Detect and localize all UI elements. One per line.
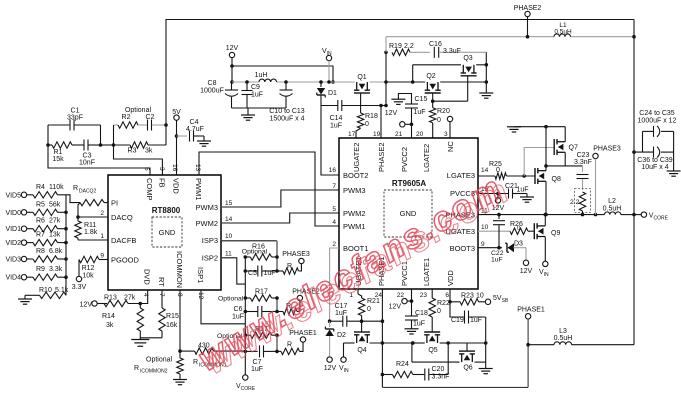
svg-text:1uF: 1uF xyxy=(335,310,347,317)
terminal VIN top xyxy=(322,48,332,84)
svg-text:R14: R14 xyxy=(102,313,115,320)
svg-text:C24 to C35: C24 to C35 xyxy=(639,110,675,117)
svg-text:PHASE2: PHASE2 xyxy=(377,142,386,172)
label Optional R2C2 xyxy=(125,107,152,114)
wire PHASE3 row xyxy=(478,213,636,217)
svg-text:R9: R9 xyxy=(36,266,45,273)
resistor R23 xyxy=(448,289,485,305)
svg-text:NC: NC xyxy=(446,141,455,152)
resistor RICOMMON1 430 xyxy=(180,343,245,369)
svg-text:Q3: Q3 xyxy=(463,55,472,62)
svg-text:VID3: VID3 xyxy=(5,257,21,264)
wire BOOT2 net xyxy=(321,106,339,176)
resistor R3 xyxy=(114,142,167,155)
wire PWM2 route xyxy=(222,213,339,223)
svg-text:VDD: VDD xyxy=(172,178,181,194)
svg-text:1uF: 1uF xyxy=(251,366,263,373)
svg-text:Q8: Q8 xyxy=(552,176,561,183)
svg-text:R13: R13 xyxy=(104,295,117,302)
svg-text:C3: C3 xyxy=(83,153,92,160)
capacitor C14 xyxy=(321,100,386,130)
svg-text:VID4: VID4 xyxy=(5,275,21,282)
resistor R11 xyxy=(75,203,98,240)
wire ISP2 node vertical xyxy=(275,296,279,313)
svg-text:5: 5 xyxy=(143,167,150,171)
terminal 5VSB xyxy=(485,295,509,304)
terminal VIN Q9 xyxy=(539,261,549,278)
capacitor C3 xyxy=(72,140,101,167)
wire PHASE2 pin stub xyxy=(379,104,383,138)
resistor R13 xyxy=(104,290,148,307)
svg-text:16: 16 xyxy=(171,164,178,172)
svg-text:3: 3 xyxy=(444,131,448,138)
svg-text:Optional: Optional xyxy=(218,296,244,303)
diode D3 xyxy=(505,241,526,253)
svg-text:R1: R1 xyxy=(54,149,63,156)
svg-text:3.3nF: 3.3nF xyxy=(574,159,592,166)
svg-text:2: 2 xyxy=(332,241,336,248)
svg-text:VID5: VID5 xyxy=(5,192,21,199)
terminal 12V BOOT3 xyxy=(520,248,533,275)
capacitor C17 xyxy=(330,303,385,327)
svg-text:VID2: VID2 xyxy=(5,240,21,247)
svg-text:0.5uH: 0.5uH xyxy=(554,29,572,36)
svg-text:5.1k: 5.1k xyxy=(55,287,69,294)
svg-text:LGATE3: LGATE3 xyxy=(447,171,475,180)
svg-text:0.5uH: 0.5uH xyxy=(554,335,573,342)
wire C1 block frame xyxy=(46,125,113,147)
svg-text:R: R xyxy=(287,263,292,270)
svg-text:VDD: VDD xyxy=(446,270,455,286)
svg-text:3.3nF: 3.3nF xyxy=(432,374,450,381)
svg-text:22: 22 xyxy=(397,292,405,299)
wire Q3 ground vertical xyxy=(485,52,489,93)
ground C4 xyxy=(197,136,211,146)
svg-text:1uF: 1uF xyxy=(517,187,529,194)
wire BOOT3 row xyxy=(478,246,502,250)
svg-text:UGATE2: UGATE2 xyxy=(352,143,361,172)
svg-text:VID1: VID1 xyxy=(5,226,21,233)
svg-text:16: 16 xyxy=(329,167,337,174)
capacitor C2 xyxy=(138,114,166,131)
svg-text:LGATE1: LGATE1 xyxy=(422,258,431,286)
ground C18 xyxy=(405,329,419,345)
svg-text:Q1: Q1 xyxy=(357,74,366,81)
wire Q7 Q8 gate tie xyxy=(524,148,554,177)
resistor R8 VID3 input xyxy=(5,248,67,264)
svg-text:33pF: 33pF xyxy=(67,115,83,122)
svg-text:0: 0 xyxy=(437,308,441,315)
resistor R15 xyxy=(140,290,179,338)
wire DACQ row xyxy=(78,216,108,218)
resistor R19 xyxy=(389,43,430,56)
transistor Q1 xyxy=(354,74,370,93)
svg-text:3.3V: 3.3V xyxy=(72,284,87,291)
svg-text:C16: C16 xyxy=(429,41,442,48)
svg-text:C23: C23 xyxy=(577,152,590,159)
svg-text:R17: R17 xyxy=(255,289,268,296)
op-amp U1 RT8800 controller xyxy=(108,175,221,290)
svg-text:PWM1: PWM1 xyxy=(343,222,366,231)
svg-text:C18: C18 xyxy=(415,310,428,317)
svg-text:R15: R15 xyxy=(166,313,179,320)
svg-text:10: 10 xyxy=(225,233,233,240)
svg-text:COMP: COMP xyxy=(145,178,154,201)
svg-text:R24: R24 xyxy=(396,361,409,368)
resistor R10 xyxy=(25,287,69,299)
transistor Q6 xyxy=(412,343,486,372)
terminal 5V xyxy=(172,109,181,120)
svg-text:1uF: 1uF xyxy=(330,123,342,130)
svg-text:GND: GND xyxy=(159,228,176,237)
svg-text:110k: 110k xyxy=(49,184,64,191)
svg-text:11: 11 xyxy=(225,251,232,258)
resistor R16 optional xyxy=(242,244,277,261)
ground RICOMMON2 xyxy=(173,380,187,385)
capacitor C5 xyxy=(245,266,277,278)
capacitor C10 to C13 xyxy=(269,80,305,122)
svg-text:C14: C14 xyxy=(330,115,343,122)
svg-text:3: 3 xyxy=(158,167,165,171)
svg-text:DACQ: DACQ xyxy=(111,213,133,222)
resistor R to PHASE1 xyxy=(277,342,303,355)
svg-text:PWM3: PWM3 xyxy=(343,186,366,195)
ground C21 xyxy=(520,194,534,203)
svg-text:4.7uF: 4.7uF xyxy=(186,126,204,133)
terminal 3.3V xyxy=(72,260,87,292)
svg-text:R21: R21 xyxy=(367,298,380,305)
svg-text:Q2: Q2 xyxy=(426,73,435,80)
resistor R27 2.2 optional xyxy=(570,189,591,215)
diode D2 xyxy=(325,321,346,357)
svg-text:19: 19 xyxy=(373,131,381,138)
wire 5V to VDD xyxy=(175,120,179,175)
svg-text:1.8k: 1.8k xyxy=(84,229,98,236)
resistor R9 VID4 input xyxy=(5,266,67,282)
resistor R22 xyxy=(429,289,450,332)
ground R14 R15 xyxy=(131,338,149,346)
wire PHASE1 pin24 column xyxy=(381,289,385,387)
svg-text:RT: RT xyxy=(157,277,166,287)
svg-text:2.2: 2.2 xyxy=(404,43,414,50)
wire 12V column xyxy=(230,58,234,84)
resistor R to PHASE2 xyxy=(277,301,300,315)
label RT8800 right pins xyxy=(196,200,233,263)
label RT8800 top pins xyxy=(143,164,203,201)
wire ISP3 row xyxy=(222,240,277,242)
svg-text:1000uF x 12: 1000uF x 12 xyxy=(638,118,677,125)
svg-text:16k: 16k xyxy=(166,322,178,329)
svg-text:C36 to C39: C36 to C39 xyxy=(637,157,673,164)
wire ISP3 node vertical xyxy=(275,241,279,273)
svg-text:1000uF: 1000uF xyxy=(200,88,224,95)
svg-text:C5: C5 xyxy=(248,270,257,277)
wire DACFB row xyxy=(78,239,108,241)
resistor R21 xyxy=(358,289,380,332)
svg-text:ISP3: ISP3 xyxy=(202,236,218,245)
svg-text:5V: 5V xyxy=(172,109,181,116)
svg-text:C15: C15 xyxy=(415,96,428,103)
svg-text:PHASE3: PHASE3 xyxy=(282,251,310,258)
svg-text:0: 0 xyxy=(437,117,441,124)
svg-text:DVD: DVD xyxy=(143,269,152,285)
svg-text:C9: C9 xyxy=(251,84,260,91)
resistor R18 xyxy=(356,93,378,138)
wire pin15 row xyxy=(478,192,527,196)
svg-text:14: 14 xyxy=(225,216,233,223)
resistor R14 xyxy=(102,304,144,339)
label RT9605A left pins xyxy=(329,167,369,253)
svg-text:7: 7 xyxy=(332,183,336,190)
svg-text:1uF: 1uF xyxy=(491,257,503,264)
transistor Q8 xyxy=(535,168,561,216)
svg-text:C1: C1 xyxy=(71,108,80,115)
svg-text:3.3uF: 3.3uF xyxy=(443,48,461,55)
terminal PHASE3 sense xyxy=(282,251,310,264)
resistor R17 optional xyxy=(218,289,277,303)
inductor L1 xyxy=(554,22,572,37)
svg-text:Optional: Optional xyxy=(125,107,152,114)
capacitor bank C36 to C39 xyxy=(632,131,673,171)
svg-text:R12: R12 xyxy=(82,265,95,272)
svg-text:R10: R10 xyxy=(39,287,52,294)
svg-text:R: R xyxy=(287,342,292,349)
svg-text:R4: R4 xyxy=(36,184,45,191)
ground VID ladder xyxy=(18,295,32,304)
svg-text:C8: C8 xyxy=(208,80,217,87)
svg-text:12V: 12V xyxy=(389,304,402,311)
capacitor C20 xyxy=(425,366,450,381)
svg-text:15: 15 xyxy=(225,200,233,207)
svg-text:12V: 12V xyxy=(80,302,93,309)
terminal 12V PVCC1 xyxy=(389,289,414,316)
svg-text:R22: R22 xyxy=(437,300,450,307)
svg-text:R2: R2 xyxy=(122,114,131,121)
resistor R17 optional lower xyxy=(217,326,277,340)
wire ISP1 route xyxy=(201,290,245,324)
svg-text:0.5uH: 0.5uH xyxy=(603,206,622,213)
svg-text:12V: 12V xyxy=(385,110,398,117)
watermark elecfans xyxy=(192,170,515,382)
svg-text:C2: C2 xyxy=(146,114,155,121)
terminal PHASE3 power xyxy=(593,146,621,215)
svg-text:PWM2: PWM2 xyxy=(343,209,366,218)
svg-text:1uF: 1uF xyxy=(264,270,276,277)
transistor Q7 xyxy=(554,139,578,166)
svg-text:12V: 12V xyxy=(520,268,533,275)
terminal PHASE1 power xyxy=(517,307,545,388)
label RT8800 bottom pins xyxy=(142,251,205,300)
capacitor C8 xyxy=(200,80,238,108)
resistor R6 VID1 input xyxy=(5,218,67,234)
svg-text:PWM1: PWM1 xyxy=(194,178,203,201)
svg-text:DACFB: DACFB xyxy=(111,236,136,245)
svg-text:PGOOD: PGOOD xyxy=(111,256,140,265)
transistor Q9 xyxy=(534,215,560,262)
svg-text:9: 9 xyxy=(481,241,485,248)
svg-text:6: 6 xyxy=(445,292,449,299)
label RT9605A top pins xyxy=(348,131,455,172)
svg-text:R3: R3 xyxy=(128,148,137,155)
svg-text:PWM3: PWM3 xyxy=(196,203,219,212)
capacitor C6 xyxy=(232,306,277,321)
svg-text:1: 1 xyxy=(100,233,104,240)
svg-text:1uF: 1uF xyxy=(470,317,482,324)
svg-text:R23: R23 xyxy=(461,293,474,300)
svg-text:FB: FB xyxy=(157,178,166,188)
inductor L3 xyxy=(528,328,634,345)
svg-text:3k: 3k xyxy=(106,322,114,329)
svg-text:1500uF x 4: 1500uF x 4 xyxy=(269,116,304,123)
capacitor C19 xyxy=(450,302,486,343)
svg-text:R19: R19 xyxy=(389,43,402,50)
resistor R26 xyxy=(478,221,534,234)
resistor R24 xyxy=(382,361,424,378)
transistor Q4 xyxy=(344,332,413,354)
resistor RICOMMON2 optional xyxy=(134,351,183,379)
svg-text:9: 9 xyxy=(100,253,104,260)
svg-text:PHASE1: PHASE1 xyxy=(517,307,545,314)
svg-text:3.3k: 3.3k xyxy=(49,266,63,273)
svg-text:4: 4 xyxy=(332,219,336,226)
wire Q7 top xyxy=(514,125,565,142)
wire COMP connection xyxy=(48,145,150,175)
svg-text:0: 0 xyxy=(365,121,369,128)
svg-text:BOOT3: BOOT3 xyxy=(450,244,475,253)
svg-text:27k: 27k xyxy=(49,218,61,225)
ground Q6 C19 xyxy=(479,362,493,374)
svg-text:R5: R5 xyxy=(36,201,45,208)
terminal 12V input xyxy=(226,45,239,58)
svg-text:C20: C20 xyxy=(432,366,445,373)
svg-text:Q4: Q4 xyxy=(357,347,366,354)
svg-text:10k: 10k xyxy=(82,273,94,280)
svg-text:6.8k: 6.8k xyxy=(49,248,63,255)
svg-text:L3: L3 xyxy=(559,328,567,335)
svg-text:ISP1: ISP1 xyxy=(196,267,205,283)
svg-text:1uF: 1uF xyxy=(251,92,263,99)
ground Q7 xyxy=(507,127,521,132)
svg-text:C4: C4 xyxy=(190,119,199,126)
svg-text:2.2: 2.2 xyxy=(570,199,580,206)
svg-text:0: 0 xyxy=(367,306,371,313)
svg-text:VID0: VID0 xyxy=(5,210,21,217)
inductor 1uH filter xyxy=(255,72,277,82)
label RT8800 left pins xyxy=(100,199,139,265)
capacitor C1 xyxy=(48,108,101,131)
svg-text:ICOMMON2: ICOMMON2 xyxy=(140,369,168,375)
capacitor C7 xyxy=(245,345,277,373)
svg-text:12V: 12V xyxy=(324,365,337,372)
svg-text:C19: C19 xyxy=(451,317,464,324)
resistor R12 xyxy=(79,256,108,279)
svg-text:PHASE3: PHASE3 xyxy=(593,146,621,153)
label RT9605A right pins xyxy=(445,167,488,253)
ground C15 xyxy=(391,94,411,105)
wire VCORE feedback top line xyxy=(166,20,634,126)
ground filter xyxy=(241,108,255,120)
svg-text:23: 23 xyxy=(420,292,428,299)
svg-text:R20: R20 xyxy=(437,108,450,115)
capacitor C22 xyxy=(491,215,505,264)
wire FB connection xyxy=(114,145,163,175)
wire Q8 drain net xyxy=(544,127,582,171)
svg-text:2: 2 xyxy=(100,210,104,217)
resistor R1 xyxy=(48,142,72,163)
svg-text:PVCC2: PVCC2 xyxy=(400,147,409,172)
svg-text:RT9605A: RT9605A xyxy=(392,179,426,188)
wire PWM1 route xyxy=(199,152,339,226)
label RT9605A bottom pins xyxy=(349,256,455,299)
terminal VCORE sense xyxy=(236,375,256,392)
svg-text:D1: D1 xyxy=(328,90,337,97)
wire BOOT1 net xyxy=(328,248,339,323)
svg-text:Q5: Q5 xyxy=(428,347,437,354)
svg-text:ISP2: ISP2 xyxy=(202,254,218,263)
terminal PHASE2 top xyxy=(514,5,542,37)
ground Q2 Q3 xyxy=(479,93,493,98)
svg-text:10uF x 4: 10uF x 4 xyxy=(641,164,668,171)
svg-text:ICOMMON: ICOMMON xyxy=(175,251,184,288)
svg-text:21: 21 xyxy=(395,131,403,138)
resistor R7 VID2 input xyxy=(5,232,67,248)
terminal 12V DVD xyxy=(80,301,107,309)
capacitor C9 xyxy=(242,80,264,108)
svg-text:LGATE2: LGATE2 xyxy=(422,144,431,172)
diode D1 xyxy=(317,80,337,105)
svg-text:1uH: 1uH xyxy=(255,72,268,79)
svg-text:R: R xyxy=(134,365,139,372)
svg-text:27k: 27k xyxy=(124,295,136,302)
svg-text:17: 17 xyxy=(348,131,356,138)
svg-text:0: 0 xyxy=(496,167,500,174)
svg-text:Optional: Optional xyxy=(146,357,173,364)
terminal 12V PVCC3 xyxy=(492,194,505,213)
wire VCORE sense bus xyxy=(244,255,248,375)
svg-text:D3: D3 xyxy=(514,241,523,248)
wire ICOMMON column xyxy=(178,290,182,353)
svg-text:PWM2: PWM2 xyxy=(196,219,219,228)
svg-text:13k: 13k xyxy=(49,232,61,239)
capacitor C21 xyxy=(505,183,529,199)
wire VID bus xyxy=(65,195,67,295)
wire PWM3 route xyxy=(222,190,339,207)
wire bottom phase1 rail xyxy=(382,386,528,388)
svg-text:56k: 56k xyxy=(49,201,61,208)
svg-text:Q9: Q9 xyxy=(551,230,560,237)
svg-text:1uF: 1uF xyxy=(413,321,425,328)
svg-text:10nF: 10nF xyxy=(79,160,95,167)
svg-text:3k: 3k xyxy=(145,148,153,155)
capacitor bank C24 to C35 xyxy=(638,110,677,152)
wire snubber to Q5 node xyxy=(447,343,449,375)
wire VIN rail xyxy=(232,81,486,83)
svg-text:R: R xyxy=(193,359,198,366)
wire phase2 node vertical xyxy=(384,51,388,108)
transistor Q2 xyxy=(425,73,441,93)
terminal VIN Q4 xyxy=(339,343,349,374)
resistor R4 VID5 input xyxy=(5,184,66,200)
svg-text:PI: PI xyxy=(111,199,118,208)
capacitor C18 xyxy=(405,310,428,329)
inductor L2 xyxy=(603,198,622,215)
wire ISP1 node vertical xyxy=(275,333,279,353)
svg-text:C10 to C13: C10 to C13 xyxy=(269,108,305,115)
svg-text:C6: C6 xyxy=(234,306,243,313)
resistor RDACQ2 xyxy=(66,185,108,206)
resistor R2 xyxy=(114,114,139,128)
svg-text:10: 10 xyxy=(476,293,484,300)
